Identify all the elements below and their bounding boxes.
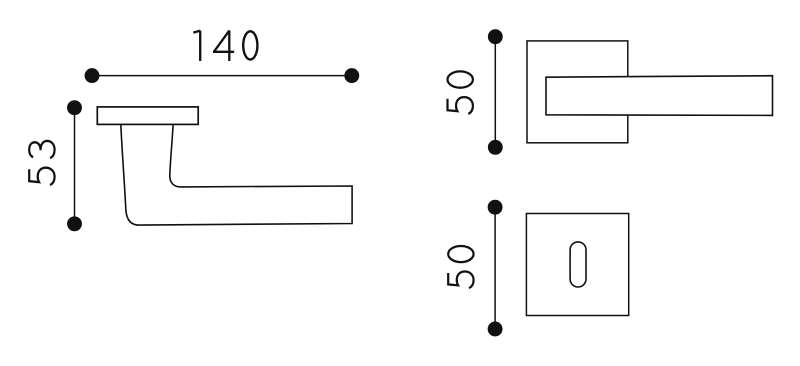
lever front view — [546, 76, 773, 116]
label 50 top (rotated) — [448, 71, 473, 114]
dimension line 140 — [85, 68, 360, 83]
handle lever side profile — [121, 125, 352, 226]
escutcheon square — [526, 214, 628, 316]
square rose front view — [527, 41, 628, 143]
dimension line 50 bottom — [488, 200, 503, 337]
label 50 bottom (rotated) — [448, 246, 473, 288]
label 53 (rotated) — [29, 141, 54, 185]
label 140 — [193, 30, 257, 61]
keyhole — [570, 242, 586, 287]
dimension line 50 top — [488, 29, 503, 155]
rose side view — [97, 107, 198, 125]
dimension line 53 — [67, 100, 82, 231]
